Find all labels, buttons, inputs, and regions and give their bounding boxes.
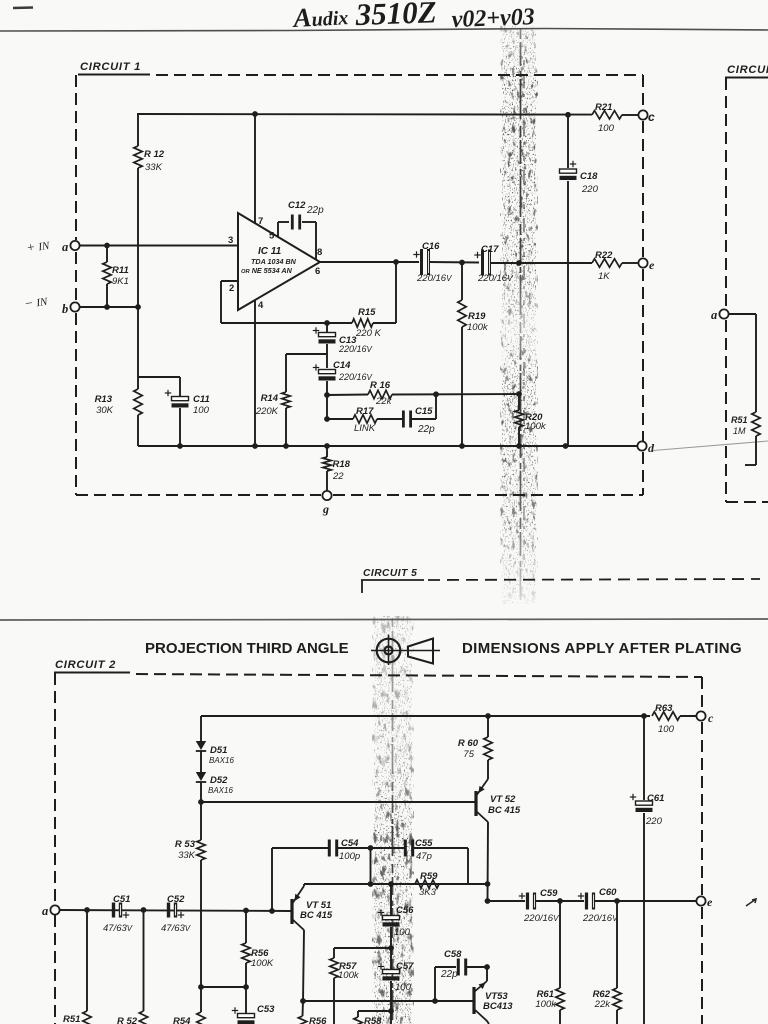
circuit 1 dashed border (78, 74, 150, 76)
junction R19 top (459, 260, 465, 266)
capacitor C14 (319, 370, 336, 374)
circuit 2 dashed border (54, 672, 130, 674)
svg-text:e: e (649, 258, 655, 272)
capacitor C57 (390, 948, 392, 969)
svg-text:75: 75 (463, 749, 474, 760)
wire feedback horizontal (373, 322, 396, 324)
capacitor C16 (420, 249, 423, 275)
wire R55 link (358, 1010, 391, 1012)
svg-text:22: 22 (332, 471, 344, 482)
svg-text:R 53: R 53 (175, 839, 196, 850)
svg-text:220/16V: 220/16V (582, 913, 618, 924)
junction R56 top (243, 908, 249, 914)
svg-text:LINK: LINK (354, 423, 376, 434)
resistor R52 (143, 910, 145, 1011)
wire R12 top (137, 114, 139, 146)
svg-text:47p: 47p (416, 851, 432, 862)
capacitor C54 (328, 840, 331, 857)
svg-text:D51: D51 (210, 745, 227, 756)
resistor R12 (134, 146, 142, 168)
junction R20 branch (516, 260, 522, 266)
svg-text:c: c (648, 110, 655, 124)
svg-text:OR NE 5534 AN: OR NE 5534 AN (241, 266, 293, 275)
svg-text:R19: R19 (468, 311, 486, 322)
svg-text:C60: C60 (599, 887, 617, 898)
svg-text:5: 5 (269, 231, 275, 242)
resistor R15 (352, 319, 373, 327)
svg-text:R 12: R 12 (144, 149, 165, 160)
resistor R22 (592, 259, 622, 267)
resistor R63 (652, 712, 680, 720)
svg-text:BAX16: BAX16 (208, 786, 233, 795)
node c circuit2 (696, 711, 705, 720)
resistor R51 circuit3 (752, 412, 760, 436)
svg-text:220/16V: 220/16V (416, 273, 452, 284)
wire VT51 collector down (303, 930, 304, 1001)
svg-text:C14: C14 (333, 360, 351, 371)
svg-text:R 60: R 60 (458, 738, 479, 749)
svg-text:100K: 100K (251, 958, 274, 969)
junction R11 bottom (104, 304, 110, 310)
junction C56 top (388, 881, 394, 887)
wire C13 C14 to R17 (326, 395, 328, 419)
wire node a to R51 (729, 313, 757, 315)
junction pin4 bottom (252, 443, 258, 449)
capacitor C56 (390, 884, 392, 915)
svg-text:22p: 22p (440, 969, 458, 980)
svg-text:2: 2 (229, 283, 234, 294)
wire C54 branch (271, 848, 273, 911)
svg-text:R22: R22 (595, 250, 613, 261)
svg-text:R18: R18 (333, 459, 351, 470)
node g (322, 491, 331, 500)
svg-text:1K: 1K (598, 271, 610, 282)
diode D51 (196, 741, 206, 750)
node a circuit2 (50, 905, 59, 914)
junction C58/collector (484, 964, 490, 970)
svg-text:BC 415: BC 415 (488, 805, 521, 816)
wire output line circuit2 (488, 900, 526, 902)
wire R12 bottom to R13 (137, 168, 139, 377)
capacitor C12 (291, 215, 294, 230)
junction R54/R56 node (198, 984, 204, 990)
wire emitter line (304, 883, 488, 885)
svg-text:R58: R58 (364, 1016, 382, 1024)
pin 4 wire (254, 300, 256, 446)
resistor R19 (461, 263, 463, 301)
svg-text:22k: 22k (375, 396, 393, 407)
svg-text:100k: 100k (467, 322, 489, 333)
wire VT52 emitter down (487, 822, 490, 901)
wire bias to C11 (138, 376, 180, 378)
resistor R16 (368, 390, 392, 398)
node e circuit2 (696, 896, 705, 905)
svg-text:C52: C52 (167, 894, 185, 905)
handwritten title AUDIX 3510Z V02+V03 (291, 0, 535, 33)
svg-text:BAX16: BAX16 (209, 756, 234, 765)
junction R51 top (84, 907, 90, 913)
svg-text:220K: 220K (255, 406, 279, 417)
svg-text:R15: R15 (358, 307, 376, 318)
third angle projection symbol circle (377, 639, 401, 663)
svg-text:b: b (62, 302, 68, 316)
svg-text:22k: 22k (594, 999, 612, 1010)
top left corner mark (13, 6, 33, 9)
svg-text:C59: C59 (540, 888, 558, 899)
wire diode chain top (200, 716, 202, 741)
junction R17 branch (324, 416, 330, 422)
svg-text:R 52: R 52 (117, 1016, 138, 1024)
junction R16 branch (324, 392, 330, 398)
wire branch to R14 (286, 353, 327, 355)
wire input line (60, 910, 292, 911)
transistor VT53 (472, 987, 475, 1014)
junction C57 bottom link (388, 1008, 394, 1014)
svg-text:IC 11: IC 11 (258, 246, 282, 257)
junction emitter/R59 (485, 881, 491, 887)
svg-text:R54: R54 (173, 1016, 191, 1024)
svg-text:22p: 22p (306, 205, 324, 216)
junction R20 bottom (516, 443, 522, 449)
svg-text:C53: C53 (257, 1004, 275, 1015)
svg-text:g: g (322, 502, 329, 516)
capacitor C51 (112, 903, 115, 918)
node c (638, 110, 647, 119)
svg-text:100: 100 (395, 982, 412, 993)
junction C61 rail (641, 713, 647, 719)
svg-text:100k: 100k (525, 421, 547, 432)
junction C18/rail (565, 112, 571, 118)
svg-text:7: 7 (258, 216, 263, 227)
svg-text:220/16V: 220/16V (338, 344, 373, 354)
resistor R51 (86, 910, 88, 1011)
capacitor C58 (457, 959, 460, 976)
resistor R54 (200, 987, 202, 1012)
svg-text:C16: C16 (422, 241, 440, 252)
junction VT52 collector rail (485, 713, 491, 719)
svg-text:a: a (711, 308, 717, 322)
junction base line (198, 799, 204, 805)
svg-text:R63: R63 (655, 703, 673, 714)
node e (638, 258, 647, 267)
capacitor C18 (560, 169, 577, 173)
transistor VT52 (474, 791, 477, 816)
scan smudge streak top (500, 26, 538, 604)
svg-text:100p: 100p (339, 851, 360, 862)
svg-text:d: d (648, 441, 655, 455)
resistor R53 (200, 802, 202, 840)
svg-text:3K3: 3K3 (419, 887, 437, 898)
svg-text:R13: R13 (95, 394, 113, 405)
node b input (70, 302, 79, 311)
svg-text:R51: R51 (63, 1014, 80, 1024)
wire to R22 (490, 262, 592, 264)
junction R62 top (614, 898, 620, 904)
junction R57 top (388, 945, 394, 951)
svg-text:220 K: 220 K (355, 328, 381, 339)
third angle projection symbol cone (408, 639, 433, 664)
wire output to feedback (395, 262, 397, 323)
resistor R56 (245, 911, 247, 944)
junction emitter/output (485, 898, 491, 904)
junction C58 branch (432, 998, 438, 1004)
capacitor C13 (326, 323, 328, 332)
wire op-amp output (320, 261, 419, 263)
svg-text:33K: 33K (178, 850, 196, 861)
svg-text:4: 4 (258, 300, 264, 311)
resistor R13 (137, 377, 139, 389)
resistor R14 (282, 392, 290, 408)
svg-text:22p: 22p (417, 424, 435, 435)
node a input (70, 241, 79, 250)
title underline (0, 29, 768, 32)
svg-text:C17: C17 (481, 244, 499, 255)
svg-text:C61: C61 (647, 793, 664, 804)
junction feedback (393, 259, 399, 265)
svg-text:C51: C51 (113, 894, 130, 905)
svg-text:PROJECTION THIRD ANGLE: PROJECTION THIRD ANGLE (145, 640, 349, 657)
resistor R21 (592, 111, 622, 119)
junction pin7/rail (252, 111, 258, 117)
resistor R62 (616, 901, 618, 988)
junction divider/emitter line (368, 881, 374, 887)
capacitor C52 (167, 903, 170, 918)
circuit 5 border (361, 579, 424, 581)
node a circuit3 (719, 309, 728, 318)
svg-text:100: 100 (598, 123, 615, 134)
junction R11 top (104, 243, 110, 249)
pin 5 wire (277, 222, 279, 237)
junction R20 top (516, 391, 522, 397)
junction R52 top (141, 907, 147, 913)
svg-text:CIRCUI: CIRCUI (727, 64, 768, 76)
svg-text:C56: C56 (396, 905, 414, 916)
capacitor C53 (245, 987, 247, 1013)
circuit 3 dashed border (725, 77, 768, 79)
resistor R18 (326, 446, 328, 457)
pin 2 wire (221, 280, 238, 282)
junction R18 top (324, 443, 330, 449)
junction C15 top (433, 391, 439, 397)
capacitor C58 branch (434, 967, 436, 1001)
wire top rail V+ (137, 113, 592, 116)
resistor R20 (518, 394, 520, 410)
resistor R55 (357, 1011, 359, 1017)
svg-text:a: a (42, 904, 48, 918)
junction R19 bottom (459, 443, 465, 449)
svg-text:220/16V: 220/16V (477, 273, 513, 284)
svg-text:BC 415: BC 415 (300, 910, 333, 921)
wire b line (80, 306, 138, 308)
svg-text:CIRCUIT 1: CIRCUIT 1 (80, 61, 141, 73)
svg-text:R11: R11 (112, 265, 129, 276)
svg-text:C57: C57 (396, 961, 414, 972)
wire R57 link (334, 947, 391, 949)
resistor R17 LINK (327, 418, 353, 420)
svg-text:TDA 1034 BN: TDA 1034 BN (251, 257, 297, 266)
svg-text:R17: R17 (356, 406, 374, 417)
svg-text:R51: R51 (731, 415, 748, 425)
svg-text:D52: D52 (210, 775, 228, 786)
svg-text:a: a (62, 240, 68, 254)
svg-text:CIRCUIT 2: CIRCUIT 2 (55, 659, 116, 671)
resistor R61 (559, 901, 561, 988)
resistor R60 (487, 716, 489, 737)
svg-text:c: c (708, 711, 714, 725)
svg-text:100: 100 (394, 927, 411, 938)
junction C54/C55 divider (368, 845, 374, 851)
svg-text:47/63V: 47/63V (161, 923, 191, 934)
svg-text:220: 220 (645, 816, 663, 827)
svg-text:220: 220 (581, 184, 599, 195)
svg-text:CIRCUIT 5: CIRCUIT 5 (363, 568, 417, 579)
svg-text:47/63V: 47/63V (103, 923, 133, 934)
svg-text:1M: 1M (733, 426, 746, 436)
transistor VT51 (290, 899, 293, 924)
svg-text:C58: C58 (444, 949, 462, 960)
svg-text:100k: 100k (535, 999, 557, 1010)
wire R54 R56 link (201, 986, 246, 988)
svg-text:DIMENSIONS APPLY AFTER PLATING: DIMENSIONS APPLY AFTER PLATING (462, 640, 742, 657)
diode D52 (196, 772, 206, 781)
svg-text:30K: 30K (96, 405, 114, 416)
junction C53 top (243, 984, 249, 990)
svg-text:220/16V: 220/16V (523, 913, 559, 924)
svg-text:6: 6 (315, 266, 320, 277)
svg-text:VT 52: VT 52 (490, 794, 516, 805)
svg-text:e: e (707, 895, 713, 909)
capacitor C61 (643, 716, 645, 800)
smudge blob near C54 (374, 820, 414, 880)
svg-text:220/16V: 220/16V (338, 372, 373, 382)
svg-text:R56: R56 (309, 1016, 327, 1024)
svg-text:3510Z: 3510Z (354, 0, 437, 32)
svg-text:C11: C11 (193, 394, 210, 405)
svg-text:R59: R59 (420, 871, 438, 882)
pin 7 wire (254, 114, 256, 224)
pen tick near node e (746, 899, 756, 906)
capacitor C15 (402, 411, 405, 428)
junction C13 top (324, 320, 330, 326)
svg-text:8: 8 (317, 247, 322, 258)
capacitor C59 (526, 893, 529, 910)
resistor R58 (302, 1001, 305, 1016)
separator line (0, 619, 768, 620)
wire VT51 emitter corner (303, 884, 305, 886)
wire VT53 collector up (486, 967, 488, 981)
capacitor C17 (481, 250, 484, 276)
wire VT53 base line (303, 1000, 473, 1002)
wire VT52 base line (201, 801, 475, 803)
capacitor C55 (404, 840, 407, 857)
capacitor C18 wire (567, 115, 569, 168)
wire bottom rail V- (138, 445, 638, 447)
svg-text:C12: C12 (288, 200, 306, 211)
capacitor C11 (179, 377, 181, 396)
svg-text:C15: C15 (415, 406, 433, 417)
svg-text:BC413: BC413 (483, 1001, 513, 1012)
svg-text:100: 100 (193, 405, 210, 416)
scan smudge streak bottom (372, 616, 414, 1024)
svg-text:C18: C18 (580, 171, 598, 182)
svg-text:R14: R14 (261, 393, 279, 404)
resistor R57 (333, 948, 335, 958)
junction collector node (300, 998, 306, 1004)
junction C18 bottom (563, 443, 569, 449)
wire a to pin3 (80, 245, 238, 247)
junction C11 bottom (177, 443, 183, 449)
svg-text:33K: 33K (145, 162, 163, 173)
node d (637, 441, 646, 450)
wire C55 right down (467, 848, 469, 884)
capacitor C60 (585, 893, 588, 910)
wire circuit2 top rail (201, 715, 650, 717)
op-amp IC11 triangle (238, 213, 320, 310)
junction R14 bottom (283, 443, 289, 449)
junction b/bias (135, 304, 141, 310)
resistor R11 (106, 246, 108, 263)
wire R16 line (327, 394, 368, 397)
svg-text:R21: R21 (595, 102, 612, 113)
pencil mark near node d (653, 441, 768, 451)
wire divider to R59 line (370, 848, 372, 884)
resistor R59 (415, 880, 439, 888)
junction C54 branch (269, 908, 275, 914)
junction R61 top (557, 898, 563, 904)
svg-text:9K1: 9K1 (112, 276, 129, 287)
svg-text:3: 3 (228, 235, 233, 246)
svg-text:100k: 100k (338, 970, 360, 981)
svg-text:100: 100 (658, 724, 675, 735)
svg-text:R 16: R 16 (370, 380, 391, 391)
